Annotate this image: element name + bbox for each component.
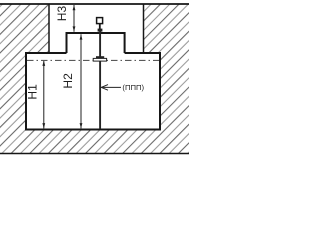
pit right wall bbox=[143, 4, 145, 53]
svg-text:H1: H1 bbox=[26, 84, 40, 100]
soil hatched region (section) bbox=[0, 4, 189, 154]
leader arrow to probe bbox=[102, 86, 122, 88]
sensor stem bbox=[99, 24, 101, 29]
dimension H2 line bbox=[80, 34, 82, 128]
tank ceiling right part bbox=[125, 52, 161, 54]
dimension H1 line bbox=[43, 61, 45, 128]
ground surface line bbox=[0, 3, 189, 5]
sensor head bbox=[97, 18, 103, 24]
pit left wall bbox=[48, 4, 50, 53]
probe flange upper bbox=[96, 56, 104, 58]
probe flange lower bbox=[93, 58, 106, 61]
sensor mounting nut bbox=[98, 29, 103, 32]
tank neck walls and rim bbox=[67, 33, 125, 53]
tank ceiling left part bbox=[25, 52, 67, 54]
dimension H3 line bbox=[73, 5, 75, 32]
tank chamber walls and floor bbox=[26, 52, 160, 130]
probe rod bbox=[99, 32, 101, 130]
svg-text:(ППП): (ППП) bbox=[122, 83, 144, 92]
liquid level dash-dot line bbox=[27, 59, 159, 61]
lower boundary line bbox=[0, 153, 189, 155]
svg-text:H3: H3 bbox=[55, 6, 69, 22]
svg-text:H2: H2 bbox=[61, 73, 75, 89]
